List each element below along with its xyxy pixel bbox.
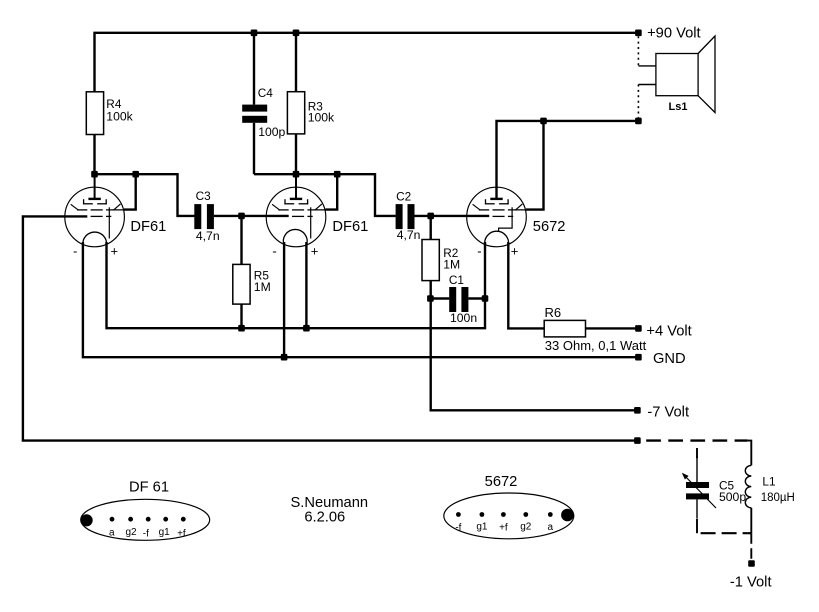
- tube base diagram DF 61 outline: [81, 499, 210, 540]
- svg-text:5672: 5672: [485, 474, 518, 490]
- node tube2 filament+ junction: [303, 325, 310, 332]
- wire tank bottom corner: [748, 532, 752, 534]
- wire L1 bottom lead: [750, 508, 752, 533]
- tube V2 anode: [290, 174, 302, 199]
- tube V2 filament: [283, 229, 307, 245]
- node -1 Volt terminal: [748, 560, 755, 567]
- wire tube1 anode node to C3: [95, 174, 195, 216]
- svg-text:1M: 1M: [443, 258, 460, 272]
- node GND terminal: [635, 354, 642, 361]
- svg-text:-: -: [73, 243, 77, 258]
- wire dashed tank bottom: [701, 532, 748, 534]
- tube V1 screen grid g2: [71, 204, 125, 210]
- wire tube2 anode row C4 to C2 corner: [254, 174, 396, 216]
- tube V3 filament: [485, 231, 509, 245]
- wire dashed -1V branch: [750, 533, 752, 559]
- tube base DF 61 pin a: [110, 517, 115, 522]
- tube base 5672 pin spigot: [561, 509, 574, 522]
- svg-text:1M: 1M: [254, 280, 271, 294]
- tube V3 screen grid g2: [473, 204, 527, 210]
- svg-text:5672: 5672: [533, 219, 566, 235]
- resistor R5: [233, 264, 250, 304]
- svg-text:L1: L1: [762, 474, 775, 488]
- svg-text:+4 Volt: +4 Volt: [646, 323, 691, 339]
- wire R5 bottom lead: [240, 304, 242, 328]
- svg-text:g2: g2: [520, 522, 532, 533]
- node tube1 screen junction: [132, 171, 139, 178]
- svg-text:g2: g2: [125, 527, 137, 538]
- svg-text:+f: +f: [177, 528, 186, 539]
- triode/pentode tube V3 envelope: [467, 187, 527, 247]
- tube V3 anode: [490, 174, 502, 199]
- svg-text:100k: 100k: [106, 110, 133, 124]
- svg-text:4,7n: 4,7n: [196, 229, 220, 243]
- node tube2 filament- ground junction: [281, 354, 288, 361]
- svg-text:C3: C3: [196, 189, 212, 203]
- node C1 left junction: [427, 295, 434, 302]
- wire C3 to tube2 grid: [214, 215, 289, 217]
- wire C5 top lead: [696, 456, 698, 482]
- capacitor C4: [242, 105, 267, 123]
- wire R2 bottom lead to -7V rail: [431, 281, 638, 411]
- variable capacitor C5 arrow: [682, 473, 716, 508]
- svg-text:+: +: [111, 244, 119, 259]
- svg-text:+f: +f: [499, 523, 508, 534]
- svg-text:4,7n: 4,7n: [397, 228, 421, 242]
- speaker Ls1 lower stub: [638, 84, 656, 86]
- wire R4 bottom to anode node: [93, 135, 95, 176]
- svg-text:DF61: DF61: [332, 219, 368, 235]
- wire tube3 filament+ leg to R6: [508, 242, 544, 328]
- wire C1 right lead: [468, 297, 485, 299]
- svg-text:Ls1: Ls1: [669, 101, 688, 113]
- svg-text:DF 61: DF 61: [129, 480, 169, 496]
- svg-text:-1 Volt: -1 Volt: [730, 574, 772, 590]
- tube base 5672 pin a: [548, 512, 553, 517]
- node R2 tap junction: [427, 213, 434, 220]
- speaker Ls1 dotted link upper: [637, 36, 639, 66]
- tube base DF 61 pin g2: [128, 517, 133, 522]
- tube base DF 61 pin +f: [181, 517, 186, 522]
- wire dashed C5 bottom branch: [696, 519, 698, 534]
- tube base 5672 pin -f: [456, 512, 461, 517]
- tube base 5672 pin g2: [523, 512, 528, 517]
- tube base DF 61 pin g1: [163, 517, 168, 522]
- svg-text:100p: 100p: [258, 125, 285, 139]
- node tube2 screen junction: [334, 171, 341, 178]
- wire tube1 grid lead to AVC line: [23, 216, 638, 440]
- tube V2 internal g3-filament connection: [310, 207, 312, 238]
- triode/pentode tube V2 envelope: [266, 187, 326, 247]
- wire tube2 filament- leg: [283, 242, 285, 357]
- svg-text:500p: 500p: [719, 490, 746, 504]
- wire R3 top lead: [295, 33, 297, 92]
- tube V2 suppressor grid g3: [284, 199, 308, 204]
- wire tank top corner: [748, 441, 752, 466]
- svg-text:GND: GND: [653, 351, 686, 367]
- wire filament bus tube1+ to tube3-: [107, 242, 486, 328]
- triode/pentode tube V1 envelope: [65, 187, 125, 247]
- node tube2 anode junction: [293, 171, 300, 178]
- tube V1 anode: [88, 174, 100, 199]
- tube V1 control grid g1: [91, 215, 112, 217]
- svg-text:R6: R6: [545, 305, 562, 320]
- svg-text:-7 Volt: -7 Volt: [647, 404, 689, 420]
- wire tube2 screen riser: [326, 174, 338, 209]
- tube V3 internal g3-filament connection: [499, 207, 512, 232]
- wire dashed AVC to tank circuit: [646, 439, 747, 441]
- tube base DF 61 pin -f: [146, 517, 151, 522]
- svg-text:g1: g1: [159, 527, 171, 538]
- speaker Ls1 upper stub: [638, 65, 656, 67]
- wire tube1 screen riser: [124, 174, 136, 209]
- svg-text:6.2.06: 6.2.06: [304, 510, 345, 526]
- tube V1 suppressor grid g3: [83, 199, 107, 204]
- tube base 5672 pin +f: [501, 512, 506, 517]
- tube V3 suppressor grid g3: [485, 199, 509, 204]
- svg-text:S.Neumann: S.Neumann: [291, 495, 369, 511]
- node R5 tap junction: [238, 213, 245, 220]
- node +90 Volt terminal: [635, 30, 642, 37]
- capacitor C1: [449, 287, 468, 312]
- wire dashed C5 top branch: [696, 448, 698, 458]
- node AVC line terminal: [634, 437, 641, 444]
- wire R3 bottom lead: [295, 134, 297, 175]
- tube V1 filament: [83, 232, 107, 245]
- svg-text:33 Ohm, 0,1 Watt: 33 Ohm, 0,1 Watt: [545, 338, 647, 353]
- wire ground bus tube1- to GND terminal: [83, 242, 639, 357]
- wire C2 to tube3 grid: [415, 215, 490, 217]
- svg-text:-: -: [272, 243, 276, 258]
- svg-text:a: a: [109, 527, 115, 538]
- svg-text:DF61: DF61: [130, 219, 166, 235]
- svg-text:100n: 100n: [450, 311, 477, 325]
- variable capacitor C5: [686, 482, 709, 499]
- resistor R2: [422, 240, 439, 281]
- wire tube3 anode riser and speaker row: [497, 121, 639, 198]
- wire C4 bottom lead to tube2 anode row: [253, 123, 255, 174]
- wire tube3 screen riser: [526, 121, 544, 210]
- node tube3 screen junction: [540, 118, 547, 125]
- tube base diagram 5672 outline: [444, 493, 574, 539]
- svg-text:-: -: [477, 243, 481, 258]
- wire tube2 filament+ leg: [305, 242, 307, 328]
- wire C4 top lead: [253, 33, 255, 105]
- wire +90V supply bus with drop to R4: [95, 33, 639, 92]
- svg-text:-f: -f: [455, 523, 461, 534]
- wire C5 bottom lead: [696, 499, 698, 518]
- speaker Ls1: [656, 36, 715, 113]
- svg-text:C1: C1: [449, 273, 464, 287]
- svg-text:100k: 100k: [308, 110, 335, 124]
- node R5 bottom junction: [238, 325, 245, 332]
- wire C1 left lead: [430, 297, 449, 299]
- wire R5 top lead: [240, 216, 242, 265]
- node tube1 anode junction: [91, 171, 98, 178]
- svg-text:g1: g1: [476, 522, 488, 533]
- tube V2 screen grid g2: [272, 204, 326, 210]
- inductor L1: [745, 465, 751, 507]
- svg-text:180µH: 180µH: [761, 492, 795, 504]
- tube V2 control grid g1: [292, 215, 313, 217]
- speaker Ls1 dotted link lower: [637, 85, 639, 118]
- node C1 right junction on tube3 filament leg: [482, 295, 489, 302]
- svg-text:a: a: [548, 522, 554, 533]
- node +4 Volt terminal: [635, 325, 642, 332]
- svg-text:+: +: [311, 244, 319, 259]
- resistor R4: [86, 92, 103, 135]
- resistor R6: [544, 320, 585, 337]
- capacitor C2: [396, 204, 415, 229]
- svg-text:+: +: [511, 244, 519, 259]
- svg-text:-f: -f: [143, 528, 149, 539]
- tube base DF 61 pin spigot: [81, 514, 93, 526]
- tube V3 control grid g1: [493, 215, 514, 217]
- node -7 Volt terminal: [634, 407, 641, 414]
- resistor R3: [287, 92, 304, 134]
- tube V1 internal g3-filament connection: [108, 207, 110, 238]
- svg-text:+90 Volt: +90 Volt: [647, 26, 701, 42]
- svg-text:C2: C2: [396, 189, 411, 203]
- tube base 5672 pin g1: [480, 512, 485, 517]
- node speaker lower terminal: [635, 118, 642, 125]
- node R3 top junction: [293, 30, 300, 37]
- node C4 top junction: [251, 30, 258, 37]
- wire R6 to +4V terminal: [586, 327, 639, 329]
- svg-text:C4: C4: [258, 86, 274, 100]
- wire R2 top lead: [430, 216, 432, 240]
- capacitor C3: [194, 204, 214, 229]
